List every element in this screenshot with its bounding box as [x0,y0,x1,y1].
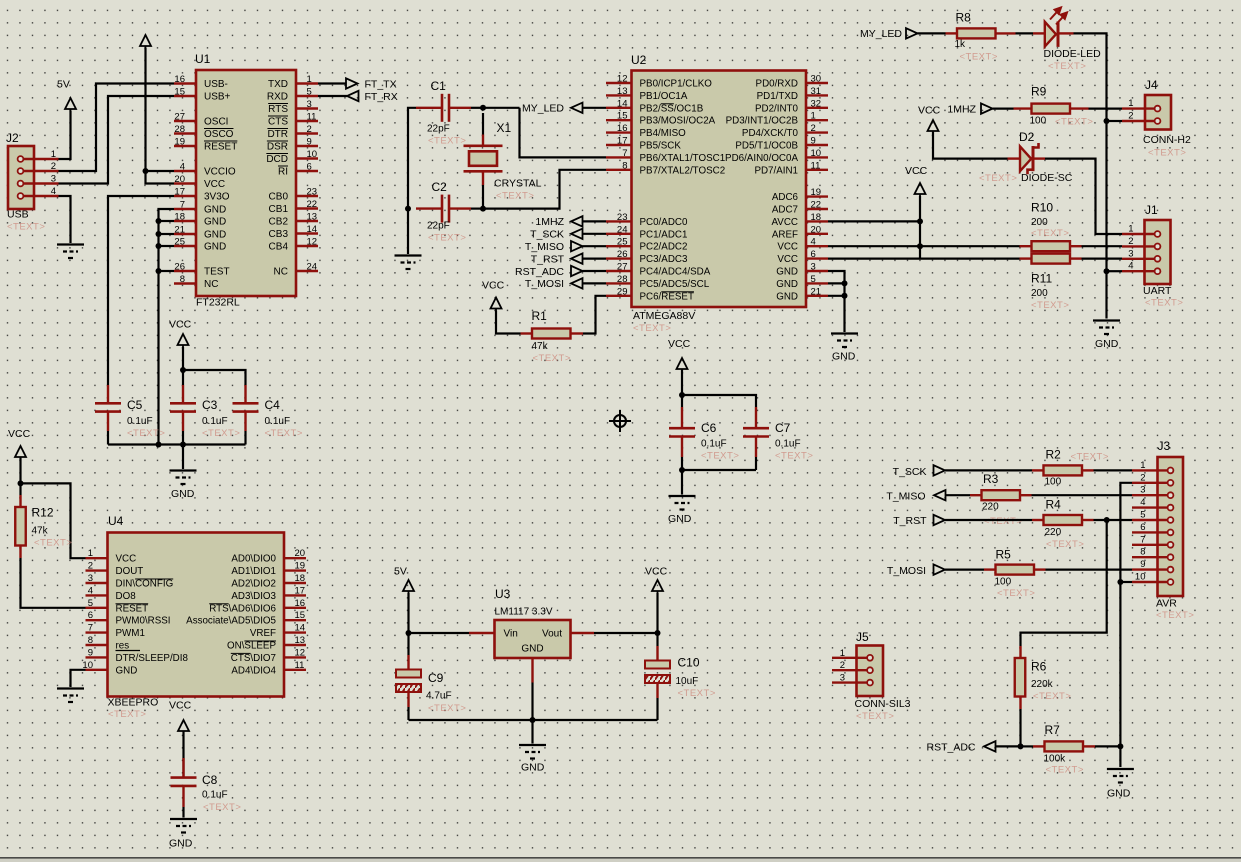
svg-text:X1: X1 [497,121,512,135]
svg-text:5: 5 [88,598,93,609]
svg-text:<TEXT>: <TEXT> [1156,610,1194,621]
svg-text:VREF: VREF [250,628,276,639]
U3 pin Vin [469,632,495,634]
svg-text:100: 100 [995,577,1012,588]
svg-text:NC: NC [274,267,288,278]
capacitor C9 [407,655,409,670]
svg-text:GND: GND [776,267,798,278]
svg-text:GND: GND [204,230,226,241]
svg-text:R3: R3 [983,472,999,486]
svg-text:RTS\AD6\DIO6: RTS\AD6\DIO6 [209,603,276,614]
svg-text:23: 23 [307,187,318,198]
svg-text:<TEXT>: <TEXT> [127,428,165,439]
svg-text:ADC6: ADC6 [772,192,799,203]
capacitor C5 [107,385,109,403]
svg-text:C8: C8 [202,773,218,787]
wire C2 right to junction [471,208,483,210]
U4 pin 11 [284,669,306,671]
svg-text:C1: C1 [431,79,447,93]
svg-text:U2: U2 [631,53,647,67]
U4 pin 14 [284,631,306,633]
U2 pin 4 [806,245,828,247]
connector J2 USB body [8,146,34,209]
svg-text:CTS: CTS [268,117,288,128]
connector J5 CONN-SIL3 body [857,646,884,697]
wire R4 to J3 pin5 [1094,519,1133,521]
svg-text:10: 10 [811,148,822,159]
junction VCC pin4 [917,243,923,249]
resistor R1 [521,332,533,334]
svg-text:T_SCK: T_SCK [893,466,927,478]
svg-text:PD7/AIN1: PD7/AIN1 [754,165,798,176]
resistor R9 [1014,107,1032,109]
junction rail center [180,442,186,448]
wire VCC pin6 to R11 [828,258,1020,260]
wire VCC to U1 VCCIO and VCC [146,48,175,184]
J2 pin 3 [24,182,59,184]
svg-text:3V3O: 3V3O [204,192,230,203]
U4 pin 13 [284,644,306,646]
U3 pin Vout [571,632,595,634]
svg-text:3: 3 [307,99,312,110]
capacitor C7 [755,407,757,428]
svg-text:20: 20 [811,224,822,235]
svg-text:CB1: CB1 [269,204,289,215]
svg-text:C7: C7 [775,421,791,435]
U1 pin 20 VCC [174,182,196,184]
svg-text:21: 21 [174,225,185,236]
svg-text:GND: GND [171,488,195,500]
svg-text:T_MOSI: T_MOSI [887,565,926,577]
J5 pin 2 [832,669,867,671]
svg-text:<TEXT>: <TEXT> [7,222,45,233]
U4 pin 17 [284,594,306,596]
svg-text:MY_LED: MY_LED [522,102,564,114]
svg-text:<TEXT>: <TEXT> [1046,539,1084,550]
svg-text:J3: J3 [1158,439,1171,453]
svg-text:U1: U1 [195,52,211,66]
U2 pin 19 [806,195,828,197]
wire R3 to J3 pin3 [1032,494,1133,496]
svg-text:9: 9 [307,137,312,148]
svg-text:6: 6 [307,162,312,173]
U4 pin 9 [86,656,108,658]
svg-text:USB: USB [7,209,29,221]
ground at J2 pin4 [57,245,84,259]
wire XTAL2 node to U2 pin8 [483,170,606,209]
svg-text:23: 23 [617,212,628,223]
svg-text:VCC: VCC [169,700,192,712]
svg-text:19: 19 [295,561,306,572]
U2 pin 20 [806,233,828,235]
svg-text:R2: R2 [1046,448,1062,462]
svg-text:C6: C6 [701,421,717,435]
U2 pin 27 [606,270,632,272]
svg-text:GND: GND [521,762,545,774]
svg-text:9: 9 [1140,559,1145,570]
svg-text:1: 1 [1140,460,1145,471]
svg-text:8: 8 [622,160,627,171]
svg-text:11: 11 [307,112,317,123]
svg-text:VCC: VCC [905,165,928,177]
U2 pin 30 [806,82,828,84]
svg-text:GND: GND [521,644,543,655]
U1 pin 6 RI [296,170,318,172]
svg-text:<TEXT>: <TEXT> [496,191,534,202]
J3 pin 7 [1132,544,1168,546]
svg-text:VCC: VCC [645,566,668,578]
svg-text:4.7uF: 4.7uF [426,691,452,702]
wire R2 to J3 pin1 [1094,469,1133,471]
svg-text:1k: 1k [955,39,967,50]
svg-text:RST_ADC: RST_ADC [926,742,975,754]
svg-text:220: 220 [982,502,999,513]
U1 pin 27 OSCI [174,120,196,122]
U1 pin 23 CB0 [296,195,318,197]
resistor R10 [1020,245,1032,247]
svg-text:0.1uF: 0.1uF [775,439,801,450]
svg-text:7: 7 [88,623,93,634]
svg-text:0.1uF: 0.1uF [202,790,228,801]
U4 pin 7 [86,631,108,633]
svg-text:3: 3 [1128,248,1133,259]
svg-text:PC0/ADC0: PC0/ADC0 [640,217,688,228]
wire C1 right to junction [471,107,483,109]
svg-text:VCC: VCC [777,254,798,265]
J3 pin 3 [1132,494,1168,496]
connector J4 CONN-H2 body [1145,95,1171,130]
svg-text:PC3/ADC3: PC3/ADC3 [640,254,688,265]
U4 pin 19 [284,569,306,571]
svg-text:AD4\DIO4: AD4\DIO4 [231,665,276,676]
svg-text:U4: U4 [108,514,124,528]
svg-text:PWM1: PWM1 [116,628,145,639]
wire U3 GND down [531,683,533,721]
wire R12 to U4 RESET pin5 [21,558,86,608]
svg-text:J2: J2 [6,131,19,145]
U1 pin 5 RXD [296,95,318,97]
svg-text:10: 10 [1135,572,1146,583]
wire R11 to J1 pin3 [1082,258,1123,260]
power VCC above D2 [928,120,939,133]
svg-text:220: 220 [1045,527,1062,538]
U2 pin 13 [606,94,632,96]
IC U3 body [495,620,571,658]
resistor R3 [970,494,982,496]
J3 pin 4 [1132,506,1168,508]
svg-text:5V: 5V [394,566,407,578]
svg-text:12: 12 [617,74,628,85]
svg-text:24: 24 [307,262,318,273]
svg-text:CB0: CB0 [269,192,289,203]
svg-text:ON\SLEEP: ON\SLEEP [227,641,276,652]
wire J1 pin4 to GND bus [1107,270,1123,272]
svg-text:7: 7 [1140,534,1145,545]
svg-text:T_SCK: T_SCK [530,229,564,241]
svg-text:MY_LED: MY_LED [860,28,902,40]
svg-text:27: 27 [174,112,185,123]
svg-text:C9: C9 [428,671,444,685]
ground under C8 [170,819,197,833]
junction J4 pin2 [1104,118,1110,124]
svg-text:DO8: DO8 [116,591,137,602]
U1 pin 1 TXD [296,82,318,84]
sheet bottom edge [0,857,1241,859]
U2 pin 3 [806,270,828,272]
svg-text:17: 17 [174,187,185,198]
svg-text:LM1117 3.3V: LM1117 3.3V [495,607,553,618]
wire to C7 top [682,395,756,407]
resistor R7 [1021,745,1034,747]
svg-text:100: 100 [1030,116,1047,127]
svg-text:RXD: RXD [267,92,288,103]
svg-text:9: 9 [811,136,816,147]
J5 pin 3 [832,681,867,683]
svg-text:4: 4 [811,237,816,248]
wire junction to U3 Vin [409,632,470,634]
resistor R2 [1032,469,1044,471]
wire VCC to C6 C7 [681,370,683,407]
junction U1 GND 25 [156,243,162,249]
svg-text:25: 25 [617,237,628,248]
svg-text:<TEXT>: <TEXT> [428,703,466,714]
U1 pin 13 CB2 [296,220,318,222]
wire XTAL1 node to U2 pin7 [483,107,520,109]
resistor R8 [946,32,958,34]
junction U3 GND rail [530,717,536,723]
wire C6 C7 bottom [682,469,756,471]
svg-text:3: 3 [51,174,56,185]
svg-text:T_MOSI: T_MOSI [525,278,564,290]
svg-text:Associate\AD5\DIO5: Associate\AD5\DIO5 [186,616,276,627]
svg-text:47k: 47k [532,341,549,352]
svg-text:22pF: 22pF [427,124,450,135]
wire VCC to C3 [182,347,184,385]
svg-text:1: 1 [1128,224,1133,235]
svg-text:CONN-H2: CONN-H2 [1143,134,1191,146]
svg-text:12: 12 [307,237,318,248]
svg-text:GND: GND [832,351,856,363]
svg-text:VCCIO: VCCIO [204,167,236,178]
svg-text:7: 7 [622,148,627,159]
wire T_SCK to R2 [945,469,1032,471]
junction R7 GND bus [1117,743,1123,749]
svg-text:30: 30 [811,74,822,85]
U1 pin 12 CB4 [296,245,318,247]
svg-text:10: 10 [307,149,318,160]
svg-text:2: 2 [88,561,93,572]
diode D2 DIODE-SC [1008,157,1021,159]
wire C3 to rail [182,431,184,445]
svg-text:DTR/SLEEP/DI8: DTR/SLEEP/DI8 [116,653,189,664]
svg-text:0.1uF: 0.1uF [265,416,291,427]
connector J1 UART body [1145,220,1171,284]
wire VCC to D2 [933,132,1008,159]
wire VCC to R1 [496,311,521,334]
svg-text:28: 28 [174,124,185,135]
ground right of U2 [831,334,858,348]
U1 pin 24 NC [296,270,318,272]
svg-text:PD0/RXD: PD0/RXD [756,79,798,90]
U4 pin 15 [284,619,306,621]
capacitor C4 [244,385,246,403]
svg-text:DTR: DTR [267,129,288,140]
svg-text:13: 13 [617,86,628,97]
svg-text:DOUT: DOUT [116,566,144,577]
svg-text:RESET: RESET [204,142,237,153]
junction C6 top [679,392,685,398]
wire U3 Vout to C10 [594,632,658,634]
U2 pin 6 [806,257,828,259]
J3 pin 9 [1132,568,1168,570]
ground rail under caps [108,443,246,445]
svg-text:1: 1 [840,648,845,659]
svg-text:8: 8 [1140,547,1145,558]
capacitor C6 [681,407,683,428]
junction VCC C3 C4 [180,367,186,373]
svg-text:4: 4 [180,162,185,173]
svg-text:4: 4 [1140,497,1145,508]
svg-text:VCC: VCC [169,319,192,331]
U1 pin 21 GND [174,233,196,235]
svg-text:TXD: TXD [268,79,288,90]
J1 pin 3 [1122,258,1155,260]
J5 pin 1 [832,657,867,659]
wire J2 pin3 to U1 USB+ [59,96,175,184]
junction U1 GND 21 [156,231,162,237]
svg-text:NC: NC [204,279,218,290]
svg-text:ATMEGA88V: ATMEGA88V [633,310,695,322]
junction U1 TEST [156,268,162,274]
svg-text:0.1uF: 0.1uF [701,439,727,450]
svg-text:2: 2 [51,161,56,172]
wire LED to GND bus [1058,32,1074,34]
svg-text:15: 15 [174,87,185,98]
svg-text:PD6/AIN0/OC0A: PD6/AIN0/OC0A [725,153,798,164]
U2 pin 32 [806,107,828,109]
svg-text:T_RST: T_RST [893,515,927,527]
wire R1 to U2 pin29 [583,296,606,334]
U2 pin 25 [606,245,632,247]
svg-text:PC6/RESET: PC6/RESET [640,291,694,302]
capacitor C10 [656,646,658,661]
svg-text:5: 5 [811,274,816,285]
svg-text:0.1uF: 0.1uF [202,416,228,427]
svg-text:<TEXT>: <TEXT> [1148,148,1186,159]
svg-text:1MHZ: 1MHZ [535,216,564,228]
J3 pin 1 [1132,469,1168,471]
svg-text:18: 18 [174,212,185,223]
U1 pin 10 DCD [296,157,318,159]
svg-text:0.1uF: 0.1uF [127,416,153,427]
wire J3 pin10 to GND bus [1120,581,1132,583]
svg-text:<TEXT>: <TEXT> [1031,228,1069,239]
U4 pin 10 [86,669,108,671]
svg-text:<TEXT>: <TEXT> [1046,765,1084,776]
U4 pin 3 [86,582,108,584]
svg-text:GND: GND [169,838,193,850]
wire R8 to LED [1016,32,1034,34]
U4 pin 5 [86,607,108,609]
U4 pin 4 [86,594,108,596]
wire U1 3V3O to C5 [108,196,174,385]
svg-text:PD5/T1/OC0B: PD5/T1/OC0B [735,141,798,152]
svg-text:CRYSTAL: CRYSTAL [494,178,542,190]
J3 pin 10 [1132,581,1168,583]
U4 pin 8 [86,644,108,646]
svg-text:C3: C3 [202,398,218,412]
svg-text:26: 26 [617,249,628,260]
J1 pin 1 [1122,233,1155,235]
svg-text:18: 18 [295,573,306,584]
wire VCC down to Vout node [656,593,658,646]
svg-text:19: 19 [174,137,185,148]
svg-text:3: 3 [840,673,845,684]
svg-text:17: 17 [617,136,628,147]
svg-text:<TEXT>: <TEXT> [203,802,241,813]
U2 pin 11 [806,169,828,171]
svg-text:<TEXT>: <TEXT> [428,233,466,244]
svg-text:D2: D2 [1019,130,1035,144]
U2 pin 15 [606,119,632,121]
svg-text:18: 18 [811,212,822,223]
svg-text:20: 20 [295,548,306,559]
svg-text:14: 14 [617,98,628,109]
svg-text:Vin: Vin [504,629,518,640]
wire to C4 top [183,370,246,385]
svg-text:J4: J4 [1145,78,1158,92]
svg-text:14: 14 [307,224,318,235]
U2 pin 26 [606,257,632,259]
svg-text:CB2: CB2 [269,217,289,228]
svg-text:U3: U3 [495,587,511,601]
svg-text:AVR: AVR [1156,598,1177,610]
svg-text:15: 15 [617,111,628,122]
svg-text:T_RST: T_RST [531,253,565,265]
svg-text:6: 6 [1140,522,1145,533]
svg-text:VCC: VCC [482,280,505,292]
wire D2 to J1 pin1 [1045,159,1122,234]
terminal FT_TX [318,82,346,84]
J2 pin 2 [24,170,59,172]
wire VCC down to U2 VCC pins [919,196,921,259]
wire T_MOSI to R5 [945,568,984,570]
U1 pin 11 CTS [296,120,318,122]
svg-text:<TEXT>: <TEXT> [1048,61,1086,72]
svg-text:T_MISO: T_MISO [525,241,564,253]
svg-text:CB3: CB3 [269,229,289,240]
svg-text:1: 1 [51,149,56,160]
svg-text:GND: GND [204,205,226,216]
wire rail to ground [182,445,184,470]
svg-text:32: 32 [811,98,822,109]
wire VCC pin4 to R10 [828,245,1020,247]
svg-text:11: 11 [811,160,821,171]
U2 pin 8 [606,169,632,171]
svg-text:13: 13 [307,212,318,223]
junction XTAL2 node [480,206,486,212]
ground under U3 [519,745,546,759]
svg-text:47k: 47k [32,526,49,537]
svg-text:AD2\DIO2: AD2\DIO2 [231,579,276,590]
svg-text:22: 22 [307,199,318,210]
svg-text:200: 200 [1031,288,1048,299]
svg-text:2: 2 [811,123,816,134]
svg-text:10uF: 10uF [676,676,699,687]
svg-text:<TEXT>: <TEXT> [1071,452,1109,463]
svg-text:AD3\DIO3: AD3\DIO3 [231,591,276,602]
svg-text:<TEXT>: <TEXT> [984,516,1022,527]
